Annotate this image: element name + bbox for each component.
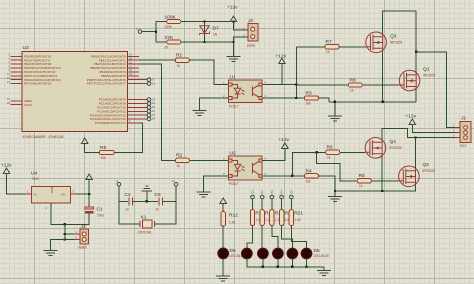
wire top row to +12v bus (205, 21, 234, 23)
wire R6 tap to R5 (317, 152, 358, 181)
capacitor C5 (159, 197, 163, 205)
node bus gnd (232, 41, 234, 43)
wire to crystal right (155, 201, 177, 224)
terminal T4 (280, 195, 284, 199)
svg-text:+12v: +12v (227, 5, 238, 11)
wire R12 to D6 (222, 226, 224, 248)
svg-text:GND: GND (50, 185, 54, 193)
wire drain tap to Q2 drain (415, 138, 417, 169)
svg-text:R12: R12 (229, 213, 238, 219)
U3 NC circle pin 9 PB6 (147, 78, 151, 82)
wire C1 to gnd row (65, 213, 89, 224)
svg-text:10k: 10k (101, 156, 107, 160)
wire arrow to R9 (85, 144, 100, 153)
node drain tap upper (415, 51, 417, 53)
ground J3 (44, 251, 58, 256)
resistor R17 (252, 199, 254, 210)
wire U1 pin3 to R3 (262, 97, 304, 99)
ground inverted xtal (146, 191, 148, 201)
wire U2 pin2 to ground (203, 176, 228, 192)
crystal X1 (142, 220, 152, 228)
wire R18 to D2 (261, 226, 263, 249)
diode D7 zener (204, 22, 206, 43)
optocoupler U2 (229, 156, 262, 180)
U3 right pin numbers (129, 53, 156, 124)
wire U4 VO to C1 node (76, 194, 89, 207)
svg-text:U1: U1 (230, 75, 236, 81)
terminal T5 (290, 195, 294, 199)
wire Q4 source to lower rail (381, 156, 383, 191)
resistor R21 (290, 199, 292, 210)
svg-text:U2: U2 (230, 151, 236, 157)
upper source/ground rail (329, 101, 416, 103)
svg-text:CRYSTAL: CRYSTAL (138, 231, 153, 235)
connector J2 (248, 24, 258, 41)
power +12v at U1 (281, 64, 283, 85)
svg-text:1k: 1k (177, 164, 181, 168)
svg-text:13: 13 (7, 80, 11, 84)
wire U2 pin4 to +12v (262, 148, 285, 160)
connector J1 (460, 122, 471, 143)
LED D2 (258, 248, 269, 259)
wire R9 to PC6 reset pin (114, 123, 143, 153)
svg-text:1k: 1k (326, 50, 330, 54)
svg-text:X1: X1 (141, 214, 147, 220)
wire U4 GND down (51, 203, 65, 224)
wire PB2 down to R2 (139, 64, 175, 160)
svg-text:R2: R2 (176, 153, 182, 159)
svg-text:IRF3205: IRF3205 (423, 74, 435, 78)
svg-text:AVCC: AVCC (24, 103, 33, 107)
resistor R12 (221, 212, 225, 227)
node bus pin1 (232, 20, 234, 22)
svg-text:28: 28 (152, 117, 156, 121)
svg-text:100u: 100u (97, 214, 104, 218)
svg-text:1N: 1N (213, 33, 218, 37)
wire R21 to D5 (291, 226, 306, 249)
wire xtal right (163, 186, 176, 201)
microcontroller U3 body (22, 51, 128, 131)
resistor R5 (357, 179, 371, 183)
svg-text:U4: U4 (31, 171, 37, 177)
ground U2 pin2 (196, 192, 210, 197)
wire xtal left (119, 186, 128, 201)
svg-text:1n: 1n (156, 208, 160, 212)
svg-text:R21: R21 (294, 211, 303, 217)
svg-text:1k: 1k (359, 184, 363, 188)
LED D3 (273, 248, 284, 259)
wire bus down to ground (233, 42, 235, 57)
resistor R20 (281, 199, 283, 210)
svg-text:10k: 10k (306, 180, 312, 184)
wire to crystal left (119, 201, 140, 224)
svg-text:10k: 10k (306, 102, 312, 106)
node pin3 row (295, 97, 297, 99)
wire Q1 source down to rail (415, 89, 417, 102)
wire R19 to D3 (272, 226, 278, 249)
svg-text:1k: 1k (177, 64, 181, 68)
wire drain tap to J1 pin1 (416, 52, 455, 128)
power +5v arrow above R12 (220, 198, 227, 204)
svg-text:20: 20 (7, 101, 11, 105)
wire C2 to C5 (133, 200, 158, 202)
resistor 27K (156, 41, 167, 43)
svg-text:+12v: +12v (406, 114, 417, 120)
terminal XTAL2 (174, 182, 178, 186)
node xtal mid (146, 200, 148, 202)
svg-text:PC817: PC817 (229, 104, 239, 108)
resistor R8 (348, 83, 362, 87)
resistor R2 (175, 158, 189, 162)
svg-text:LED-BLUE: LED-BLUE (314, 254, 330, 258)
wire gnd row to J3 (64, 224, 66, 239)
LED D1 (242, 248, 253, 259)
svg-text:7805: 7805 (32, 177, 39, 181)
resistor R3 (304, 96, 318, 100)
capacitor C1 polarized (85, 207, 94, 209)
wire PB1 to R1 (139, 59, 175, 61)
regulator U4 7805 (32, 187, 71, 204)
ground D6 (216, 276, 230, 281)
svg-text:PB7/TOSC2/XTAL2/PCINT7: PB7/TOSC2/XTAL2/PCINT7 (87, 82, 126, 86)
terminal input node (net origin) (138, 30, 142, 34)
node gnd row (64, 223, 66, 225)
svg-text:100K: 100K (165, 14, 177, 20)
LED D5 (301, 248, 312, 259)
ground lower rail (334, 191, 336, 196)
svg-text:J2: J2 (247, 18, 253, 24)
ground stem upper rail (334, 102, 336, 116)
svg-text:VI: VI (34, 193, 37, 197)
svg-text:R8: R8 (350, 77, 356, 83)
svg-text:ATMEGA48/88P - ATMEGA8: ATMEGA48/88P - ATMEGA8 (23, 135, 64, 139)
wire R17 to D1 (247, 226, 253, 249)
node D7 cathode (203, 41, 205, 43)
LED D6 (218, 248, 229, 259)
node R6 tap (315, 151, 317, 153)
mosfet Q3 (366, 32, 403, 53)
svg-text:+12v: +12v (279, 137, 290, 143)
terminal T2 (260, 195, 264, 199)
U3 right pin stubs PB0-PB7 (128, 56, 148, 83)
LED cathode bus (247, 259, 324, 267)
svg-text:VO: VO (61, 193, 66, 197)
U3 left pin stubs PD0-PD7 (11, 56, 23, 83)
LED D4 (287, 248, 298, 259)
wire Q3 source down to rail (382, 51, 384, 102)
power +5v arrow above C1 (86, 174, 93, 180)
svg-text:R6: R6 (327, 145, 333, 151)
connector J3 (80, 229, 89, 244)
resistor R4 (304, 174, 318, 178)
svg-text:C2: C2 (125, 192, 131, 198)
wire Q4 drain chain step (382, 129, 455, 140)
ground below J2 (227, 57, 241, 62)
optocoupler U1 (229, 80, 262, 103)
svg-text:B4: B4 (280, 190, 284, 194)
svg-text:C1: C1 (97, 207, 103, 213)
mosfet Q4 (365, 138, 402, 159)
svg-text:Q1: Q1 (423, 67, 430, 73)
U3 pin AREF stub (11, 100, 23, 102)
wire R6 feed vertical lower (292, 152, 325, 176)
U3 left pin numbers (7, 53, 11, 105)
node drain tap lower (414, 136, 416, 138)
terminal T1 (251, 195, 255, 199)
svg-text:Q3: Q3 (390, 34, 397, 40)
svg-text:R5: R5 (359, 173, 365, 179)
svg-text:power: power (247, 44, 257, 48)
svg-text:B2: B2 (260, 190, 264, 194)
svg-text:PC6/RESET/PCINT14: PC6/RESET/PCINT14 (95, 121, 126, 125)
terminal T3 (270, 195, 274, 199)
wire gate feed vertical upper (296, 47, 325, 98)
svg-text:100K: 100K (165, 25, 173, 29)
resistor 100K (156, 21, 167, 23)
svg-text:1.2K: 1.2K (229, 221, 236, 225)
resistor R19 (271, 199, 273, 210)
svg-text:B3: B3 (270, 190, 274, 194)
node D7 anode (203, 20, 205, 22)
svg-text:10: 10 (171, 179, 175, 183)
node divider junction (155, 30, 157, 32)
wire Q3 drain chain to Q1 drain (383, 11, 417, 72)
mosfet Q1 (399, 67, 435, 91)
wire +12v bus to J2 pin1 (234, 22, 248, 31)
svg-text:27K: 27K (165, 35, 174, 41)
svg-text:R3: R3 (306, 90, 312, 96)
wire Q2 source to lower rail (335, 185, 416, 192)
resistor R18 (261, 199, 263, 210)
wire U2 pin3 to R4 node (262, 175, 292, 177)
wire +12v to U4 VI (7, 174, 26, 195)
svg-text:1n: 1n (126, 208, 130, 212)
svg-text:1k: 1k (327, 156, 331, 160)
wire U1 pin2 to ground (200, 98, 229, 111)
node R4 left (291, 175, 293, 177)
svg-text:1k: 1k (350, 88, 354, 92)
svg-text:C5: C5 (155, 192, 161, 198)
svg-text:D7: D7 (213, 26, 219, 32)
svg-text:+12v: +12v (276, 54, 287, 60)
svg-text:PC817: PC817 (229, 182, 239, 186)
wire +12v to J1 pin2 (412, 125, 455, 133)
wire R2 to U2 pin1 (189, 159, 228, 161)
terminal XTAL1 (117, 182, 121, 186)
svg-text:PD7/AIN1/PCINT23: PD7/AIN1/PCINT23 (24, 82, 52, 86)
resistor R6 (326, 150, 340, 154)
svg-text:IRF3205: IRF3205 (390, 146, 402, 150)
node lower rail ground (334, 190, 336, 192)
svg-text:IRF3205: IRF3205 (390, 41, 402, 45)
svg-text:R7: R7 (326, 39, 332, 45)
svg-text:1.2K: 1.2K (294, 218, 301, 222)
svg-text:IRF3205: IRF3205 (423, 169, 435, 173)
resistor R1 (175, 58, 189, 62)
svg-text:SIL3: SIL3 (460, 144, 467, 148)
U3 right pin names (87, 54, 126, 125)
wire J2 pin2 to ground bus (234, 37, 248, 42)
svg-text:10: 10 (152, 81, 156, 85)
power +5v arrow above R9 (81, 138, 88, 144)
svg-text:J1: J1 (460, 116, 466, 122)
svg-text:B5: B5 (289, 190, 293, 194)
ground U1 pin2 (193, 111, 207, 116)
resistor R7 (325, 45, 339, 49)
node pin4 row (295, 83, 297, 85)
ground LED bus (323, 267, 325, 271)
U3 NC circle pin 10 PB7 (147, 82, 151, 86)
svg-text:switch: switch (78, 246, 87, 250)
wire terminal to divider (142, 31, 156, 33)
U3 pin AVCC stub (11, 104, 23, 106)
U3 NC circles PC0-PC5 (147, 98, 151, 102)
U3 left pin names (24, 54, 61, 106)
svg-text:Q4: Q4 (390, 139, 397, 145)
wire U1 pin4 to +12v and R8 node (262, 84, 296, 86)
svg-text:R4: R4 (306, 168, 312, 174)
resistor R9 (99, 150, 114, 154)
svg-text:19: 19 (129, 72, 133, 76)
ground upper rail (328, 116, 342, 121)
svg-text:Q2: Q2 (423, 162, 430, 168)
svg-text:R9: R9 (100, 145, 106, 151)
wire divider vertical (155, 22, 157, 43)
wire R1 to U1 pin1 (189, 60, 228, 84)
wire D6 to ground (222, 259, 224, 276)
capacitor C2 (129, 197, 133, 205)
svg-text:R1: R1 (176, 53, 182, 59)
svg-text:B1: B1 (251, 190, 255, 194)
svg-text:J3: J3 (80, 224, 86, 230)
mosfet Q2 (399, 162, 435, 187)
svg-text:U3: U3 (23, 45, 29, 51)
U3 right pin stubs PC0-PC6 (128, 100, 148, 123)
wire R20 to D4 (282, 226, 293, 249)
